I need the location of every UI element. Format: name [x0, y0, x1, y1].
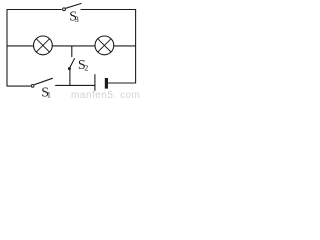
wire left vertical	[6, 9, 8, 86]
wire middle-right segment	[114, 45, 136, 47]
wire right vertical	[135, 9, 137, 83]
switch S1	[31, 78, 53, 87]
watermark manfen5.com	[71, 90, 140, 101]
wire top-right segment	[81, 9, 136, 11]
wire S2 branch lower	[69, 70, 71, 86]
label S1	[41, 85, 51, 100]
label S2	[78, 58, 88, 73]
wire top-left segment	[7, 9, 62, 11]
lamp L1	[34, 36, 53, 55]
svg-text:manfen5. com: manfen5. com	[71, 90, 140, 99]
wire middle-center segment	[52, 45, 95, 47]
svg-text:1: 1	[47, 90, 51, 99]
lamp L2	[95, 36, 114, 55]
switch S3	[63, 3, 82, 10]
wire bottom-left segment	[7, 85, 31, 87]
svg-text:3: 3	[75, 15, 79, 24]
switch S2	[68, 58, 75, 70]
label S3	[69, 10, 78, 25]
wire bottom-right segment	[108, 82, 136, 84]
svg-text:2: 2	[84, 64, 88, 73]
wire middle-left segment	[7, 45, 34, 47]
battery B1	[95, 74, 108, 91]
wire bottom-middle segment	[55, 84, 95, 86]
wire S2 branch upper	[71, 46, 73, 57]
